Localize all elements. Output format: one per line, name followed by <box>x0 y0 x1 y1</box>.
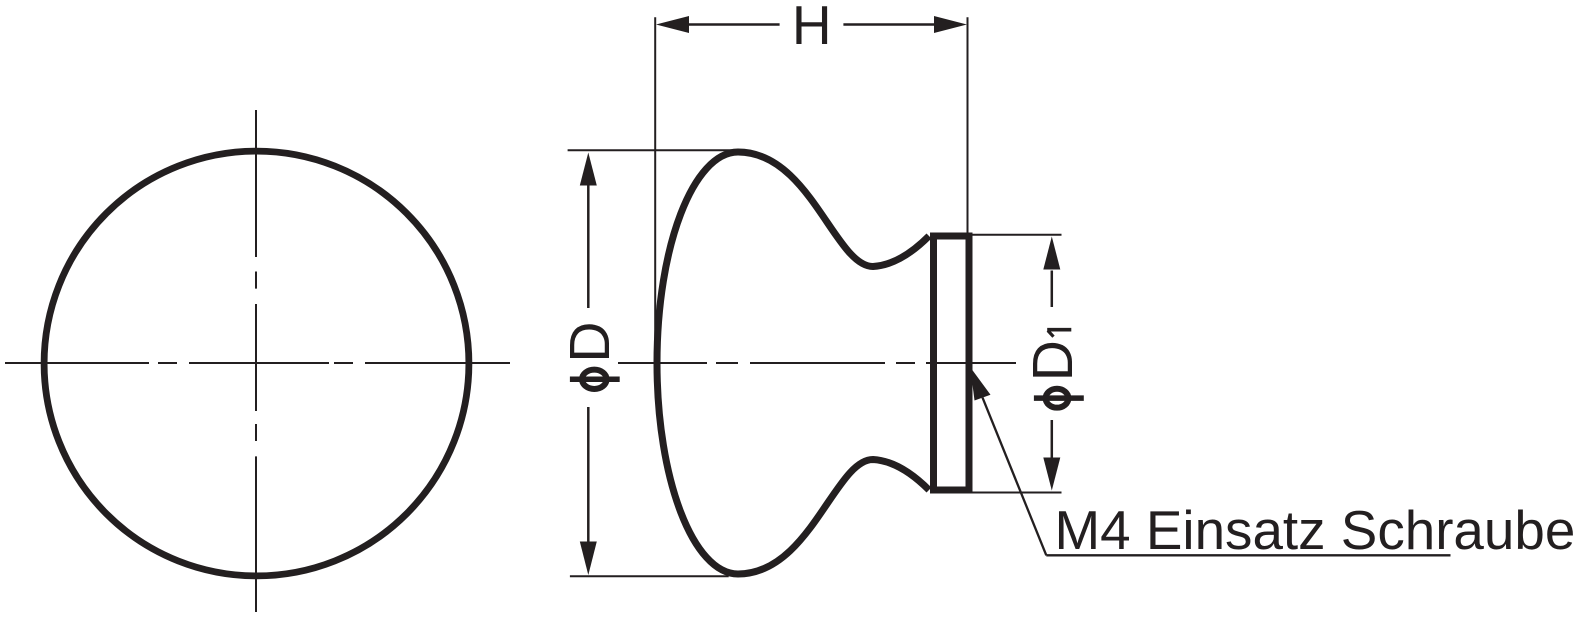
svg-text:D: D <box>558 321 622 362</box>
dimension phiD: label phi symbol circle <box>582 370 607 389</box>
dimension phiD1: label subscript 1 (rotated) <box>1047 328 1071 332</box>
dimension H: right arrowhead <box>934 16 967 33</box>
dimension H: dimension line left segment <box>689 23 780 26</box>
dimension phiD: top extension line <box>568 149 734 151</box>
dimension phiD: down arrowhead <box>580 542 597 576</box>
dimension phiD1: up arrowhead <box>1043 237 1060 270</box>
dimension H: left arrowhead <box>656 16 689 33</box>
leader line diagonal <box>983 398 1047 556</box>
front view horizontal centerline <box>5 362 510 364</box>
svg-text:M4 Einsatz Schraube: M4 Einsatz Schraube <box>1055 499 1576 561</box>
dimension phiD: label phi symbol bar <box>570 376 620 382</box>
side view: mounting plate <box>934 236 970 490</box>
front view: knob circle <box>44 151 469 576</box>
dimension phiD1: dimension line upper segment <box>1051 271 1054 308</box>
dimension H: right extension line <box>967 17 969 232</box>
dimension phiD: dimension line lower segment <box>587 407 590 542</box>
front view vertical centerline <box>255 110 257 612</box>
leader arrowhead pointing to plate <box>970 367 990 400</box>
dimension phiD: bottom extension line <box>570 575 729 577</box>
side view horizontal centerline <box>618 362 1016 364</box>
side view: knob profile outline <box>657 152 929 574</box>
leader line underline <box>1046 554 1450 556</box>
dimension phiD1: down arrowhead <box>1043 458 1060 491</box>
dimension phiD: dimension line upper segment <box>587 185 590 308</box>
dimension H: dimension line right segment <box>843 23 934 26</box>
dimension phiD1: dimension line lower segment <box>1051 420 1054 458</box>
dimension phiD1: bottom extension line <box>963 492 1062 494</box>
svg-text:H: H <box>792 0 832 56</box>
dimension H: left extension line <box>654 17 656 363</box>
dimension phiD: up arrowhead <box>580 153 597 186</box>
svg-text:D: D <box>1021 340 1085 381</box>
dimension phiD1: label phi symbol bar <box>1034 395 1084 401</box>
dimension phiD1: label phi symbol circle <box>1046 389 1069 408</box>
dimension phiD1: top extension line <box>971 234 1062 236</box>
